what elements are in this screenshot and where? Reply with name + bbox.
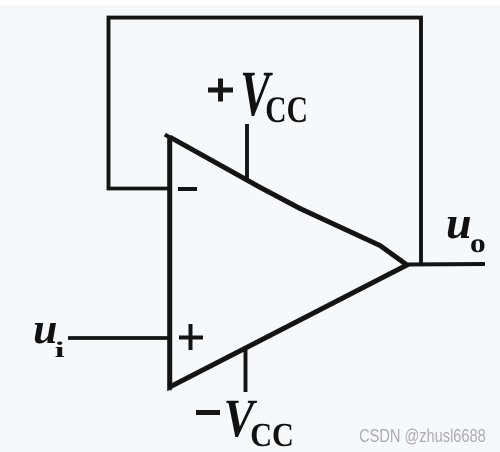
- label u_i: [33, 305, 57, 353]
- label +Vcc plus sign: [208, 79, 233, 102]
- wire: output from apex to right: [405, 262, 485, 267]
- op-amp non-inverting input plus sign: [179, 324, 203, 350]
- svg-text:CSDN @zhusl6688: CSDN @zhusl6688: [359, 425, 486, 446]
- label u_o: [446, 197, 472, 248]
- op-amp U1 triangle: [170, 137, 407, 387]
- label -Vcc minus sign: [196, 410, 220, 415]
- svg-text:CC: CC: [265, 90, 308, 131]
- svg-text:i: i: [55, 338, 65, 362]
- label +Vcc V: [240, 58, 273, 130]
- wire: +Vcc supply into op-amp top: [245, 124, 249, 180]
- wire: stub from feedback to inverting input: [107, 187, 171, 191]
- label -Vcc CC subscript: [250, 415, 294, 452]
- label +Vcc CC subscript: [265, 90, 308, 131]
- op-amp triangle corner overshoot bottom: [167, 386, 171, 390]
- svg-text:o: o: [470, 229, 486, 259]
- wire: -Vcc supply from op-amp bottom: [244, 348, 248, 392]
- label -Vcc V: [224, 387, 258, 448]
- watermark CSDN @zhusl6688: [359, 425, 486, 446]
- wire: input u_i to non-inverting input: [68, 336, 170, 340]
- svg-text:u: u: [446, 197, 472, 248]
- op-amp inverting input minus sign: [178, 187, 197, 191]
- op-amp triangle corner overshoot top: [165, 135, 170, 138]
- wire: feedback loop (left vertical, top horizontal, right vertical): [109, 18, 422, 264]
- svg-text:CC: CC: [250, 415, 294, 452]
